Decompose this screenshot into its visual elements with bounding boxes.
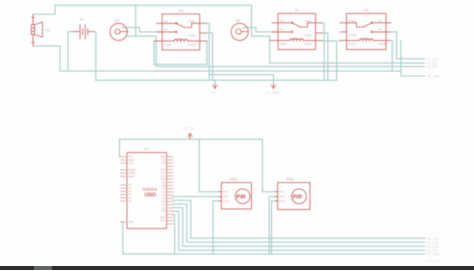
relay K1 [278,14,316,50]
svg-text:COIL: COIL [362,37,369,41]
PIR1 pins [219,191,221,193]
U1 right pin D1 [167,207,174,209]
U1 right pin D13 [167,169,174,171]
svg-text:COILA: COILA [348,42,356,46]
U1 left pin A5 [121,200,128,202]
net arrow U1_5V (up) [188,133,193,137]
U1 right pin D5 [167,194,174,196]
U1 left pin A0 [121,184,128,186]
svg-text:U1_GND: U1_GND [427,253,441,257]
svg-text:NC: NC [280,27,284,31]
svg-text:COIL: COIL [292,37,299,41]
svg-text:NO: NO [164,19,168,23]
U1 left pin IOREF [121,172,128,174]
svg-text:NC: NC [379,27,383,31]
svg-text:U1_D2: U1_D2 [427,65,438,69]
wire K1 right pin2 down [322,33,328,80]
svg-text:K2: K2 [179,9,183,13]
svg-text:NO: NO [379,19,383,23]
U1 right pin D0 [167,162,174,164]
wire top rail drop at motor U2 [135,5,137,36]
U1 right pin D10 [167,178,174,180]
window bottom bar [0,266,474,270]
wire U1_GND net stub [273,75,275,85]
svg-text:PiR: PiR [236,195,245,201]
U1 right pin T.R [167,159,174,161]
svg-text:NO: NO [280,19,284,23]
wire K2 right pin1 down [206,23,209,80]
U1 right pin D0 [167,210,174,212]
wire vertical to bus Y2 [269,36,271,63]
wire motor U3 pin to relay K1 NC [243,28,278,32]
wire K2 coil loop [154,41,207,64]
wire bus Y2 [270,62,425,64]
relay K2 pin names [164,19,387,203]
relay K2 coil [162,40,174,42]
svg-text:U1_5V: U1_5V [184,127,195,131]
wire battery left lead down [68,32,72,71]
Arduino U1 box [127,153,167,229]
svg-text:GND: GND [128,221,134,224]
svg-text:SCL: SCL [160,220,165,223]
svg-text:5 3V: 5 3V [128,162,133,165]
wire bus Y5 with drop from Y4 [401,41,425,76]
wire 5V rail to U1 pin [120,139,121,156]
svg-text:COM2: COM2 [348,33,356,37]
wire bus Y4b [209,74,273,76]
svg-text:OUT: OUT [279,195,285,199]
U1 left pin GND [121,221,128,223]
U1 left pin A4 [121,197,128,199]
motor U2 [110,23,127,40]
svg-text:UNO: UNO [145,193,157,199]
svg-text:K3: K3 [364,9,368,13]
U1 right pin D6 [167,191,174,193]
relay K3 (mirrored) [347,14,387,50]
U1 left pin A2 [121,190,128,192]
U1 right pin AD2 [167,156,174,158]
wire PIR2 GND down [272,201,278,254]
wire fanout 5 to bottom line [173,215,175,254]
wire top rail drop at motor U3 [251,5,253,36]
U1 right pin D9 [167,181,174,183]
U1 right pin D11 [167,175,174,177]
svg-text:+1): +1) [45,29,50,33]
wire fanout 1 [173,200,425,238]
svg-text:GND: GND [223,199,229,203]
svg-text:Arduino: Arduino [142,187,158,192]
Arduino U1 pins [121,156,174,224]
svg-text:COIL: COIL [176,37,183,41]
wire 5V to PIR1 VCC [199,139,221,191]
wire battery right lead down to bus Y6 [94,32,96,81]
U1 left pin 5 3V [121,162,128,164]
wire K1 right pin1 down [322,23,324,80]
svg-text:COM2: COM2 [304,33,312,37]
U1 right pin SDA [167,217,174,219]
wire bus Y3 [156,66,424,68]
wire bus Y6 [96,79,337,81]
wire top rail [55,4,252,6]
svg-text:COM1: COM1 [304,19,312,23]
battery P1 [73,31,80,33]
svg-text:P1: P1 [80,18,84,22]
wire PIR2 OUT down [269,197,278,254]
PIR1 circle [235,189,250,204]
svg-text:COILB: COILB [188,43,196,47]
svg-text:COILB: COILB [304,42,312,46]
U1 left pin RES2 [121,175,128,177]
speaker SP body [31,25,34,35]
U1 right pin SCL [167,220,174,222]
svg-text:U1_GND: U1_GND [266,91,280,95]
svg-text:PIR1: PIR1 [230,178,238,182]
svg-text:U3: U3 [236,19,241,23]
wire 5V rail [120,138,263,140]
svg-text:GND: GND [279,199,285,203]
U1 right pin D12 [167,172,174,174]
svg-text:PiR: PiR [293,195,302,201]
U1 right pin 4 [167,165,174,167]
svg-text:D0: D0 [162,210,166,213]
svg-text:COILB: COILB [378,42,386,46]
svg-text:RES2: RES2 [128,175,135,178]
wire motor U3 lower terminal to Y2 vertical [252,35,270,37]
svg-text:NC: NC [164,27,168,31]
svg-text:COILA: COILA [164,43,172,47]
motor U3 [231,23,248,40]
U1 right pin D4 [167,197,174,199]
scrollbar thumb [34,266,52,270]
wire bus Y4 [60,70,401,72]
svg-text:COM2: COM2 [188,34,196,38]
svg-text:COM1: COM1 [188,19,196,23]
U1 right pin D3 [167,201,174,203]
svg-text:U1_GND: U1_GND [428,259,442,263]
grey net labels [184,57,442,263]
U1 left pin VIN [121,156,128,158]
U1 right pin D7 [167,188,174,190]
svg-text:COILA: COILA [279,42,287,46]
wire Y4 drop to Y5 [400,71,402,76]
U1 right pin D2 [167,204,174,206]
wire bus Y1 from K3 NC pin [390,32,425,59]
svg-text:OUT: OUT [223,195,229,199]
svg-text:A5: A5 [128,200,132,203]
wire bottom long line [121,222,425,254]
wire speaker bottom [33,46,60,71]
svg-text:P1-: P1- [211,91,216,95]
wire motor U2 pin to relay K2 NC [122,28,162,32]
U1 right pin 19 [167,213,174,215]
wire P1- net stub [214,80,216,85]
wire K2 right pin2 down [206,33,213,80]
wire motor U2 lower terminal to Y3 vertical [127,35,157,37]
speaker pins [32,15,34,25]
U1 left pin A1 [121,187,128,189]
svg-text:VCC: VCC [223,190,229,194]
U1 left pin RESET [121,169,128,171]
U1 left pin GND [121,159,128,161]
U1 left pin A3 [121,194,128,196]
wire fanout 4 [173,211,425,250]
PIR2 pins [276,191,278,193]
svg-text:D0: D0 [162,162,166,165]
svg-text:COM1: COM1 [348,19,356,23]
wire 5V to PIR2 VCC [262,139,277,191]
relay K2 switch [176,23,184,27]
svg-text:U1: U1 [144,147,149,151]
svg-text:VCC: VCC [279,190,285,194]
wire fanout 3 [173,208,425,247]
wire PIR1 GND down [213,201,221,254]
svg-text:U1_GND: U1_GND [427,75,441,79]
svg-text:K1: K1 [295,9,299,13]
wire vertical to bus Y3 [155,36,157,66]
net arrow U1_GND [271,85,276,89]
relay K2 [162,14,200,50]
U1 right pin D8 [167,185,174,187]
wire fanout 2 [173,204,425,242]
U1 right pin 22 [167,223,174,225]
PIR2 circle [292,189,307,204]
wire K3 coil pin down to Y4 [390,41,392,72]
wire K1 coil right to Y6 [322,41,337,80]
PIR2 box [278,183,310,210]
net arrow P1- [213,85,218,89]
svg-text:U2: U2 [115,19,120,23]
svg-text:PIR2: PIR2 [287,178,295,182]
wire U1 to PIR1 OUT [173,196,221,198]
speaker cone [35,22,43,37]
PIR1 box [221,183,251,209]
wire speaker top to top rail [33,5,55,14]
